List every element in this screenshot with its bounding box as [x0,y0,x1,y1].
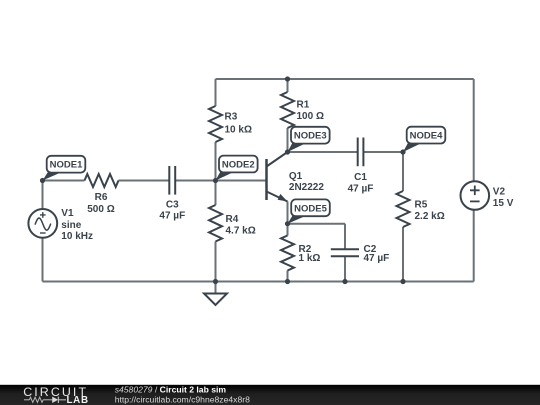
wire R6 to C3 [119,180,170,182]
node bottom junction R5 [400,279,405,284]
resistor R1 [281,92,294,128]
svg-text:C3: C3 [166,199,179,210]
svg-text:sine: sine [61,220,81,231]
svg-text:V1: V1 [61,208,74,219]
svg-text:R1: R1 [297,100,310,111]
svg-text:500 Ω: 500 Ω [87,204,114,215]
wire R5 bottom lead [402,227,404,282]
svg-text:V2: V2 [493,187,506,198]
svg-text:R3: R3 [225,112,238,123]
svg-text:http://circuitlab.com/c9hne8ze: http://circuitlab.com/c9hne8ze4x8r8 [115,394,250,404]
node NODE3 label [288,143,308,152]
svg-text:1 kΩ: 1 kΩ [299,253,321,264]
svg-text:47 µF: 47 µF [159,211,185,222]
wire C3 to NODE2 [175,180,215,182]
node NODE3 dot [285,149,290,154]
wire NODE1 to R6 [43,180,85,182]
wire C2 bottom lead [344,256,346,281]
wire bottom rail [43,281,474,283]
svg-text:NODE2: NODE2 [222,160,255,171]
wire R2 top lead [287,224,289,236]
wire R3 bottom lead [215,142,217,181]
node NODE5 label [288,215,308,224]
wire ground stem [215,282,217,294]
svg-text:NODE5: NODE5 [294,203,327,214]
svg-text:47 µF: 47 µF [348,183,374,194]
capacitor C1 [358,138,364,167]
node NODE2 label [216,171,236,180]
svg-text:100 Ω: 100 Ω [297,111,324,122]
node NODE4 dot [400,149,405,154]
svg-text:10 kΩ: 10 kΩ [225,125,252,136]
node NODE1 label [43,172,63,181]
capacitor C3 [169,166,175,195]
wire R1 top lead [287,79,289,92]
wire V1 top [42,181,44,210]
wire C2 top lead [344,224,346,250]
node bottom junction R4 [213,279,218,284]
svg-text:NODE3: NODE3 [294,131,327,142]
node bottom junction R2 [285,279,290,284]
voltage source V1 [28,209,57,238]
wire V1 bottom [42,238,44,282]
svg-text:R5: R5 [415,200,428,211]
svg-text:s4580279 / Circuit 2 lab sim: s4580279 / Circuit 2 lab sim [115,384,227,394]
node NODE4 label [403,143,423,153]
resistor R5 [397,191,410,227]
ground [204,294,227,306]
wire R2 bottom lead [287,271,289,282]
svg-text:Q1: Q1 [289,171,303,182]
svg-text:NODE1: NODE1 [50,160,83,171]
resistor R2 [281,236,294,271]
wire R1 bottom lead [287,128,289,152]
wire Q1 emitter down [287,202,289,224]
svg-text:4.7 kΩ: 4.7 kΩ [226,226,256,237]
wire NODE5 to C2 [288,223,346,225]
node bottom junction C2 [342,279,347,284]
wire V2 top [473,79,475,181]
node top junction [285,76,290,81]
svg-text:C1: C1 [354,172,367,183]
svg-text:2.2 kΩ: 2.2 kΩ [415,211,445,222]
wire top rail [216,78,474,80]
resistor R3 [209,106,222,142]
svg-text:NODE4: NODE4 [410,131,443,142]
wire R4 top lead [215,181,217,206]
svg-text:LAB: LAB [67,395,89,405]
transistor Q1 2N2222 [267,152,288,202]
wire R4 bottom lead [215,242,217,282]
svg-text:15 V: 15 V [493,198,514,209]
wire NODE2 to Q1 base [216,180,267,182]
node NODE5 dot [285,221,290,226]
wire R3 top lead [215,79,217,106]
svg-text:10 kHz: 10 kHz [61,231,93,242]
wire R5 top lead [402,152,404,191]
svg-text:2N2222: 2N2222 [289,182,324,193]
capacitor C2 [331,249,359,256]
voltage source V2 [461,181,490,210]
svg-text:R6: R6 [95,192,108,203]
CircuitLab logo [23,385,89,405]
svg-text:R4: R4 [226,214,239,225]
wire NODE3 to C1 [288,151,358,153]
svg-text:47 µF: 47 µF [364,253,390,264]
node NODE1 dot [40,178,45,183]
wire V2 bottom [473,210,475,282]
node NODE2 dot [213,178,218,183]
resistor R6 [85,174,119,187]
wire C1 to NODE4 [363,151,403,153]
resistor R4 [209,205,222,242]
